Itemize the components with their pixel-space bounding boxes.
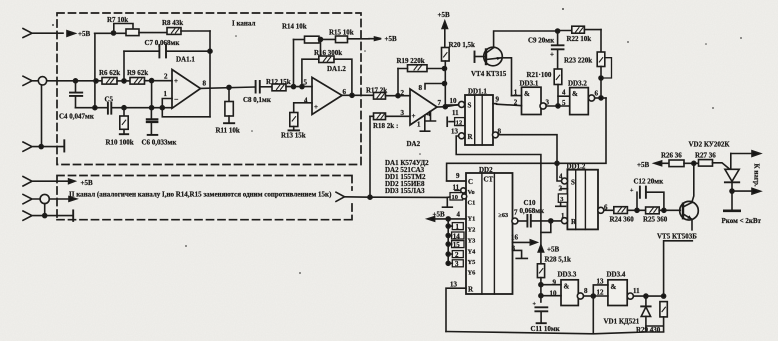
pin8 ground DD2	[513, 250, 528, 258]
pin16 arrow DD2	[513, 240, 537, 245]
capacitor C11	[535, 307, 547, 323]
node C7 left junction	[122, 79, 126, 83]
output terminal arrow bottom (to load)	[732, 188, 760, 194]
capacitor C7	[124, 45, 209, 81]
svg-text:DA2: DA2	[407, 140, 421, 148]
svg-text:10: 10	[450, 97, 458, 105]
DD1.2 output pin 6	[598, 207, 614, 213]
wire R19 left vertical	[397, 69, 399, 96]
boxed pin 10 / C1	[450, 193, 467, 200]
resistor R6	[102, 78, 117, 85]
wire DA1.1 minus feedback	[162, 99, 210, 117]
svg-text:DD3.3: DD3.3	[558, 271, 577, 279]
output terminal arrow top (to load)	[731, 151, 761, 157]
svg-text:8: 8	[203, 80, 207, 88]
boxed unused pins DD2	[452, 223, 464, 267]
wire R8 to feedback vertical	[181, 30, 210, 32]
svg-text:1: 1	[164, 90, 168, 98]
diode VD1	[641, 296, 650, 331]
+5B arrow node (ch II)	[69, 179, 75, 184]
wire R7 to R8	[139, 32, 167, 34]
svg-text:R19 220k: R19 220k	[397, 57, 425, 65]
svg-text:Vo: Vo	[468, 189, 475, 196]
svg-text:+5B: +5B	[433, 211, 445, 219]
resistor R13	[289, 113, 300, 131]
+5B arrow node (R15)	[369, 37, 381, 40]
wire DD1.1 pin8 to DD1.2 S	[498, 135, 561, 181]
capacitor C8	[256, 81, 260, 93]
resistor R22	[558, 26, 601, 33]
input terminal 3	[23, 142, 64, 151]
svg-text:+: +	[174, 77, 178, 85]
resistor R17	[374, 93, 386, 100]
wire DA2 pin8 strobe	[425, 84, 445, 90]
wire DD1.1 R to R28 rail	[456, 136, 541, 245]
svg-text:C4 0,047мк: C4 0,047мк	[59, 113, 95, 121]
svg-text:11: 11	[452, 109, 459, 117]
wire DA1.2 output to R17	[342, 94, 374, 96]
svg-text:К нагр.: К нагр.	[753, 164, 761, 187]
wire channel II up to R18	[369, 116, 371, 197]
svg-text:7: 7	[438, 99, 442, 107]
wire R14 to R15	[319, 38, 336, 40]
svg-text:C: C	[468, 178, 473, 186]
node R29 top junction	[662, 294, 666, 298]
svg-text:R20 1,5k: R20 1,5k	[449, 41, 476, 49]
svg-text:C12 20мк: C12 20мк	[634, 178, 665, 186]
+5B arrow left (DD2 Y1)	[428, 217, 467, 222]
svg-text:13: 13	[450, 281, 458, 289]
wire C10 to DD1.2 R	[531, 220, 561, 222]
svg-text:Y6: Y6	[468, 270, 477, 277]
node input6 junction	[43, 214, 47, 218]
svg-text:+5B: +5B	[547, 246, 559, 254]
terminal bar input 6	[72, 210, 74, 221]
svg-text:Y1: Y1	[468, 216, 476, 223]
wire pin2 node down to RC row	[151, 81, 153, 108]
node C7 right junction	[208, 49, 212, 53]
wire R12 to DA1.2 pin5	[286, 86, 312, 88]
resistor R7 (trimmer)	[114, 24, 139, 36]
pin 11 Vo circle	[455, 188, 466, 193]
+5B arrow (R20 top)	[442, 21, 447, 47]
svg-text:R23 220k: R23 220k	[564, 57, 592, 65]
svg-text:R12 15k: R12 15k	[266, 78, 291, 86]
svg-text:8: 8	[512, 245, 516, 253]
flip-flop DD1.2	[562, 170, 599, 230]
svg-text:9: 9	[496, 96, 500, 104]
svg-text:16: 16	[511, 234, 519, 242]
node pin2/C6 branch junction	[150, 79, 154, 83]
svg-text:4: 4	[559, 173, 563, 181]
wire junction drop to R16	[320, 39, 322, 56]
counter DD2	[466, 173, 513, 294]
svg-text:C5: C5	[105, 96, 114, 104]
svg-text:1: 1	[417, 121, 421, 129]
node pin8 junction	[443, 82, 447, 86]
wire input5 arrow	[49, 198, 69, 200]
svg-text:R21·100: R21·100	[527, 71, 552, 79]
capacitor C6	[147, 108, 157, 135]
svg-text:VD2 КУ202К: VD2 КУ202К	[689, 141, 731, 149]
svg-text:3: 3	[560, 196, 563, 203]
node R23 bottom junction	[599, 96, 603, 100]
svg-text:R14 10k: R14 10k	[282, 23, 307, 31]
svg-text:R16 300k: R16 300k	[314, 49, 342, 57]
node input3 junction	[39, 145, 43, 149]
svg-text:C9 20мк: C9 20мк	[528, 37, 555, 45]
wire circle5 down	[44, 204, 46, 216]
capacitor C12	[637, 187, 664, 211]
logic gate DD3.1	[497, 87, 570, 114]
svg-text:C7 0,068мк: C7 0,068мк	[145, 39, 181, 47]
svg-text:8: 8	[419, 84, 423, 92]
wire VT4 emitter to DD3.1 pin1	[502, 58, 512, 96]
wire VT4 collector up	[494, 31, 558, 48]
boxed pin 12 DD1.1	[447, 117, 464, 126]
svg-text:DD2: DD2	[479, 166, 493, 174]
ground stub under boxed 10	[443, 197, 453, 207]
resistor R29	[646, 302, 667, 332]
resistor R10	[120, 108, 128, 135]
node cathode junction	[730, 189, 734, 193]
logic gate DD3.3	[541, 280, 593, 306]
svg-text:R26 36: R26 36	[661, 152, 682, 160]
svg-text:4: 4	[562, 89, 566, 97]
svg-text:5: 5	[304, 79, 308, 87]
node Y1 tie junction	[446, 217, 450, 221]
terminal bar input 3	[63, 140, 65, 151]
node VT5 collector junction	[692, 161, 696, 165]
flip-flop DD1.1	[445, 95, 498, 145]
svg-text:R28 5,1k: R28 5,1k	[545, 256, 572, 264]
svg-text:14: 14	[453, 232, 461, 240]
node R11 junction	[227, 85, 231, 89]
svg-text:Y5: Y5	[468, 259, 476, 266]
svg-text:2: 2	[164, 73, 168, 81]
connector circle input 5	[40, 194, 49, 203]
wire R16 right to output	[334, 59, 352, 95]
node C10/R28-branch junction	[549, 219, 553, 223]
wire VT5 emitter down	[664, 219, 693, 296]
node DD3.1 out / R21 junction	[556, 104, 560, 108]
svg-text:DD3.1: DD3.1	[520, 80, 539, 88]
arrow node input5	[69, 197, 76, 202]
svg-text:+5B: +5B	[637, 161, 649, 169]
input terminal 4 (ch II)	[23, 177, 69, 187]
node C12 left junction	[635, 208, 639, 212]
wire RC row (C4-C5-R10-C6)	[76, 107, 173, 109]
svg-text:R13 15k: R13 15k	[281, 132, 306, 140]
node unused pin junctions	[446, 224, 450, 228]
svg-text:8: 8	[584, 287, 588, 295]
wire DD3.4 node down to rail	[592, 296, 594, 333]
thyristor VD2	[725, 154, 739, 192]
svg-text:6: 6	[604, 204, 608, 212]
svg-text:DD3.2: DD3.2	[568, 80, 587, 88]
svg-text:13: 13	[451, 128, 459, 136]
svg-text:CT: CT	[484, 176, 494, 184]
svg-text:R6 62k: R6 62k	[99, 69, 120, 77]
svg-text:+5B: +5B	[438, 11, 450, 19]
resistor R14	[294, 36, 320, 43]
svg-text:S: S	[468, 102, 472, 110]
svg-text:Y4: Y4	[468, 249, 477, 256]
wire VT5 collector up	[692, 163, 694, 202]
svg-text:10: 10	[452, 194, 458, 201]
svg-text:DD1.1: DD1.1	[468, 88, 487, 96]
svg-text:+: +	[412, 112, 416, 120]
svg-text:0,068мк: 0,068мк	[520, 207, 546, 215]
resistor R16	[319, 56, 334, 63]
node RC row junctions	[93, 106, 97, 110]
svg-text:R25 360: R25 360	[643, 216, 668, 224]
svg-text:C8 0,1мк: C8 0,1мк	[243, 96, 272, 104]
node junction R7 left	[112, 31, 116, 35]
svg-text:3: 3	[455, 260, 459, 268]
svg-text:R29 430: R29 430	[636, 326, 661, 334]
resistor R18	[370, 113, 410, 120]
wire DA1.1 output	[201, 87, 256, 88]
svg-text:VT5 КТ503Б: VT5 КТ503Б	[657, 233, 697, 241]
wire C8 to R12	[260, 86, 272, 88]
svg-text:DD3.4: DD3.4	[607, 271, 626, 279]
wire feedback vertical (DA1.1 output net)	[209, 31, 211, 117]
wire R27 to thyristor gate	[713, 163, 730, 169]
wire input2 to R6	[47, 80, 102, 82]
resistor R9	[130, 78, 145, 85]
svg-text:+5B: +5B	[385, 35, 397, 43]
svg-text:Рком < 2кВт: Рком < 2кВт	[722, 217, 762, 225]
svg-text:Y2: Y2	[468, 227, 476, 234]
wire DA1.2 pin4	[294, 103, 312, 113]
svg-text:8: 8	[498, 128, 502, 136]
svg-text:R17 2k: R17 2k	[366, 87, 387, 95]
svg-text:+: +	[533, 302, 537, 308]
node C12 right junction	[662, 208, 666, 212]
capacitor C4	[70, 81, 82, 108]
node C4 top junction	[74, 79, 78, 83]
svg-text:+: +	[630, 188, 634, 194]
resistor R11	[224, 87, 234, 123]
node DD1.2-S branch junction	[555, 161, 559, 165]
wire DD2 pin9 C	[447, 180, 466, 182]
op-amp DA2	[410, 89, 437, 125]
wire R26 to R27	[684, 162, 699, 164]
+5B arrow node (ch I)	[67, 31, 75, 37]
wire branch to R28 rail	[541, 221, 551, 233]
resistor R8	[167, 28, 181, 35]
svg-text:R11 10k: R11 10k	[216, 127, 240, 135]
wire DA2 output to DD1.1 S	[437, 105, 459, 107]
svg-text:1: 1	[514, 89, 518, 97]
resistor R25	[646, 207, 681, 214]
svg-text:4: 4	[304, 97, 308, 105]
svg-text:1: 1	[561, 212, 565, 220]
node C9 top junction	[556, 29, 560, 33]
svg-text:C11 10мк: C11 10мк	[531, 325, 561, 333]
terminal bar (Pkom)	[724, 191, 739, 211]
capacitor C9	[552, 31, 564, 69]
wire bottom rail	[446, 332, 664, 334]
wire unused pins tie	[448, 219, 452, 263]
boxed pin 3 DD1.2	[556, 189, 568, 207]
node R16 output junction	[350, 93, 354, 97]
wire R9 to DA1.1 pin2	[145, 80, 173, 82]
svg-text:C1: C1	[468, 200, 476, 207]
logic gate DD3.4	[593, 280, 663, 306]
node DD3.3 out junction	[591, 294, 595, 298]
capacitor C5	[108, 103, 111, 114]
dashed box channel I	[57, 13, 361, 165]
channel II output arrow	[336, 192, 345, 201]
svg-text:2: 2	[401, 89, 405, 97]
wire channel II to boxed 10	[345, 196, 451, 199]
node R14 vertical junction	[292, 85, 296, 89]
transistor VT4	[475, 47, 503, 66]
resistor R28	[537, 252, 544, 302]
resistor R23 (trimmer)	[597, 30, 611, 98]
svg-text:5: 5	[562, 99, 566, 107]
svg-text:II канал (аналогичен каналу I,: II канал (аналогичен каналу I,но R14,R15…	[69, 191, 332, 199]
+5B arrow (R28)	[538, 245, 543, 252]
node R23 wiper junction	[599, 76, 603, 80]
input terminal 1	[23, 29, 63, 38]
svg-text:R10 100k: R10 100k	[106, 139, 134, 147]
svg-text:R22 10k: R22 10k	[567, 35, 592, 43]
svg-text:9: 9	[456, 172, 460, 180]
wire R14 left vertical	[293, 40, 295, 87]
svg-text:10: 10	[550, 289, 558, 297]
svg-text:R8 43k: R8 43k	[162, 19, 183, 27]
svg-text:C6 0,033мк: C6 0,033мк	[142, 139, 178, 147]
+5B arrow left (output stage)	[654, 161, 669, 166]
svg-text:R18 2k :: R18 2k :	[373, 122, 398, 130]
svg-text:VD1 КД521: VD1 КД521	[604, 318, 640, 326]
node ch II junction	[368, 195, 372, 199]
wire R17 to DA2 pin2	[386, 95, 411, 97]
svg-text:6: 6	[595, 90, 599, 98]
connector circle input 2	[38, 77, 46, 85]
svg-text:+: +	[314, 103, 318, 111]
svg-text:DD1.2: DD1.2	[567, 163, 586, 171]
wire R20 bottom to DA2 out	[444, 61, 446, 107]
svg-text:2: 2	[559, 185, 563, 193]
wire DD3.2 pin4 branch	[558, 95, 570, 97]
dashed box channel II	[57, 176, 352, 220]
op-amp DA1.1	[172, 70, 201, 109]
svg-text:&: &	[564, 283, 570, 291]
resistor R24	[614, 207, 646, 214]
svg-text:12: 12	[597, 289, 605, 297]
resistor R15	[336, 36, 348, 43]
svg-text:DA1.1: DA1.1	[176, 56, 195, 64]
svg-text:11: 11	[453, 184, 460, 192]
svg-text:R9 62k: R9 62k	[127, 69, 148, 77]
wire circle2 down to input3	[41, 85, 43, 147]
svg-text:7: 7	[514, 209, 518, 217]
svg-text:3: 3	[401, 109, 405, 117]
node DA2 out junction	[443, 105, 447, 109]
svg-text:R15 10k: R15 10k	[329, 29, 354, 37]
wire DD3.2 out to DD2 C (long net)	[447, 98, 606, 181]
svg-text:12: 12	[456, 120, 462, 127]
svg-text:6: 6	[343, 88, 347, 96]
node R16 feedback junction	[300, 85, 304, 89]
logic gate DD3.2	[570, 88, 606, 115]
svg-text:1: 1	[456, 223, 460, 231]
pin 1 stub DA2	[420, 115, 429, 131]
wire R15 to +5B arrow	[348, 38, 370, 40]
svg-text:4: 4	[427, 110, 431, 118]
svg-text:&: &	[524, 90, 530, 98]
svg-text:R7 10k: R7 10k	[107, 16, 128, 24]
wire R6 to R9	[117, 80, 130, 82]
wire DD2 R pin 13	[446, 288, 466, 331]
op-amp DA1.2	[312, 77, 342, 114]
svg-text:9: 9	[553, 278, 557, 286]
resistor R27	[699, 160, 713, 167]
input terminal 2	[23, 76, 38, 85]
input terminal 5 (ch II)	[23, 194, 40, 203]
pin 4 stub DA2	[426, 112, 436, 121]
resistor R26	[669, 160, 684, 167]
node R28 rail junctions	[539, 283, 543, 287]
svg-text:–: –	[174, 95, 179, 103]
DD2 out >=63 circle	[512, 218, 527, 224]
wire +5B rail to R7	[95, 32, 126, 34]
svg-text:13: 13	[597, 278, 605, 286]
svg-text:2: 2	[455, 251, 459, 259]
svg-text:2: 2	[514, 99, 518, 107]
node R19/R20 junction	[443, 67, 447, 71]
svg-text:R27 36: R27 36	[695, 152, 716, 160]
svg-text:≥63: ≥63	[499, 212, 509, 219]
wire +5B vertical drop	[94, 33, 96, 108]
node R14/R15 junction	[319, 37, 323, 41]
svg-text:VT4 КТ315: VT4 КТ315	[471, 70, 507, 78]
input terminal 6 (ch II)	[23, 211, 73, 220]
svg-text:&: &	[572, 90, 578, 98]
svg-text:DA1.2: DA1.2	[327, 65, 346, 73]
svg-text:3: 3	[546, 99, 550, 107]
svg-text:Y3: Y3	[468, 238, 476, 245]
node R19 left junction	[396, 94, 400, 98]
svg-text:I канал: I канал	[232, 20, 255, 28]
capacitor C10	[527, 215, 530, 227]
svg-text:DD3 155ЛА3: DD3 155ЛА3	[385, 187, 425, 195]
svg-text:+: +	[550, 51, 554, 59]
svg-text:11: 11	[633, 287, 640, 295]
svg-text:+5B: +5B	[78, 30, 90, 38]
svg-text:S: S	[571, 179, 575, 187]
resistor R21	[554, 69, 562, 106]
svg-text:+5B: +5B	[81, 179, 93, 187]
svg-text:15: 15	[453, 241, 461, 249]
resistor R12	[272, 84, 286, 91]
transistor VT5	[680, 201, 699, 220]
node VD1 junction	[644, 294, 648, 298]
wire R16 left to pin5	[302, 59, 319, 86]
node +5B/in2 junction	[94, 79, 98, 83]
resistor R19	[398, 65, 445, 72]
svg-text:R24 360: R24 360	[610, 216, 635, 224]
svg-text:C10: C10	[524, 199, 537, 207]
svg-text:&: &	[611, 283, 617, 291]
resistor R20	[442, 48, 450, 62]
svg-text:4: 4	[457, 211, 461, 219]
